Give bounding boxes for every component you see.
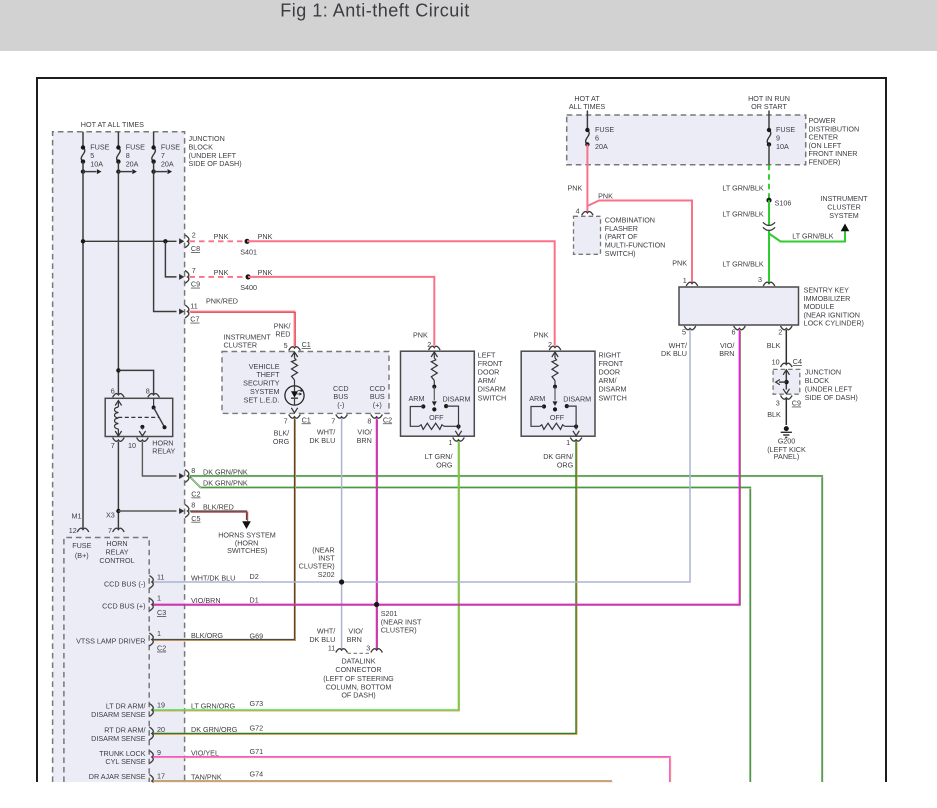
svg-text:DISARM: DISARM <box>443 395 471 404</box>
pin 2 (sentry module) <box>767 326 792 350</box>
module pin 9 (TRUNK LOCK CYL SENSE) <box>99 747 263 766</box>
diagram border frame <box>37 78 886 782</box>
svg-text:OF DASH): OF DASH) <box>341 691 375 700</box>
svg-text:(+): (+) <box>373 400 382 409</box>
horn relay K1 <box>105 387 175 456</box>
svg-text:6: 6 <box>111 387 115 396</box>
svg-text:WHT/DK BLU: WHT/DK BLU <box>191 573 235 582</box>
svg-text:C2: C2 <box>157 644 166 653</box>
svg-text:SWITCHES): SWITCHES) <box>227 546 267 555</box>
bottom crop mask (diagram cut off) <box>0 783 937 808</box>
wire: X3 junction to connector C5 <box>118 510 176 512</box>
svg-text:PNK: PNK <box>214 268 229 277</box>
module pin 1 (VTSS LAMP DRIVER) <box>76 629 263 653</box>
splice S202 <box>339 579 344 584</box>
svg-text:VIO/BRN: VIO/BRN <box>191 596 221 605</box>
wire PNK (dashed) C8 to splice S401 <box>190 240 248 242</box>
wire PNK (dashed) C9 to splice S400 <box>190 276 249 278</box>
svg-text:CCD BUS (-): CCD BUS (-) <box>104 580 146 589</box>
right front door arm/disarm switch <box>521 331 627 448</box>
svg-text:11: 11 <box>190 302 197 311</box>
wire DK GRN/PNK (upper): C2 to lower right <box>190 476 823 782</box>
svg-text:LT DR ARM/: LT DR ARM/ <box>106 701 146 710</box>
svg-text:DK BLU: DK BLU <box>309 436 335 445</box>
svg-text:3: 3 <box>776 399 780 408</box>
svg-text:17: 17 <box>157 772 165 781</box>
svg-text:ORG: ORG <box>436 460 453 469</box>
svg-text:PNK: PNK <box>534 331 549 340</box>
svg-text:(B+): (B+) <box>75 551 89 560</box>
wire PNK: fuse 6 to combination flasher pin 4 <box>586 144 588 211</box>
svg-text:1: 1 <box>157 593 161 602</box>
wire DK GRN/PNK (lower): C2 to lower right <box>190 477 750 782</box>
svg-text:LT GRN/ORG: LT GRN/ORG <box>191 701 235 710</box>
svg-text:7: 7 <box>111 441 115 450</box>
svg-text:BRN: BRN <box>719 349 734 358</box>
svg-text:2: 2 <box>548 340 552 349</box>
svg-text:PANEL): PANEL) <box>774 452 799 461</box>
svg-text:D1: D1 <box>250 595 259 604</box>
module pin 1 (CCD BUS (+)) <box>102 593 259 617</box>
svg-text:CONTROL: CONTROL <box>99 556 134 565</box>
svg-text:LOCK CYLINDER): LOCK CYLINDER) <box>804 319 864 328</box>
svg-text:X3: X3 <box>106 511 115 520</box>
svg-text:1: 1 <box>449 438 453 447</box>
svg-text:DK BLU: DK BLU <box>661 349 687 358</box>
svg-text:11: 11 <box>157 573 164 582</box>
svg-text:G72: G72 <box>250 723 264 732</box>
svg-text:VIO/: VIO/ <box>357 428 371 437</box>
svg-text:C1: C1 <box>302 340 311 349</box>
svg-text:DISARM: DISARM <box>563 395 591 404</box>
connector C7 pin 11 (output PNK/RED) <box>179 302 199 324</box>
svg-text:ARM: ARM <box>529 394 545 403</box>
svg-text:M1: M1 <box>72 512 82 521</box>
svg-text:PNK: PNK <box>258 232 273 241</box>
svg-text:DISARM SENSE: DISARM SENSE <box>91 710 146 719</box>
wire LT GRN/BLK: branch to instrument cluster system <box>769 231 845 242</box>
wire LT GRN/BLK (dashed): fuse 9 to splice S106 <box>768 144 770 164</box>
wire: branch to relay pin 8 <box>118 370 153 395</box>
wire LT GRN/BLK: S106 to in-line connector <box>768 200 770 226</box>
svg-text:8: 8 <box>146 387 150 396</box>
svg-text:7: 7 <box>284 416 288 425</box>
pin 1 (sentry module) <box>683 276 698 286</box>
svg-text:G74: G74 <box>250 769 264 778</box>
svg-text:9: 9 <box>157 748 161 757</box>
svg-text:D2: D2 <box>250 572 259 581</box>
svg-text:3: 3 <box>758 275 762 284</box>
fuse F7 20A (junction block) <box>151 132 180 174</box>
svg-text:10: 10 <box>772 358 780 367</box>
svg-text:RED: RED <box>275 330 290 339</box>
svg-text:HOT AT ALL TIMES: HOT AT ALL TIMES <box>81 120 144 129</box>
svg-text:DK GRN/PNK: DK GRN/PNK <box>203 478 248 487</box>
wire WHT/DK BLU: sentry pin 5 to S202 <box>153 330 690 582</box>
junction block J1 (under left side of dash) <box>53 120 242 782</box>
fuse F5 10A (junction block) <box>81 132 110 174</box>
svg-text:PNK/RED: PNK/RED <box>206 297 238 306</box>
svg-text:DISARM SENSE: DISARM SENSE <box>91 734 146 743</box>
svg-text:C7: C7 <box>190 315 199 324</box>
wire BLK: sentry pin 2 to junction block C4 <box>785 330 787 364</box>
vehicle theft security system set LED (with resistor) <box>243 352 304 413</box>
pin 5 C1 (instrument cluster) <box>284 340 311 351</box>
svg-text:C4: C4 <box>793 357 802 366</box>
wire X3: relay pin 7 to module pin 7 <box>117 442 119 529</box>
combination flasher (dashed box) <box>574 206 666 258</box>
wire PNK: branch to sentry key module pin 1 <box>587 201 692 284</box>
svg-text:TAN/PNK: TAN/PNK <box>191 772 222 781</box>
svg-text:C3: C3 <box>157 608 166 617</box>
title banner <box>0 0 937 51</box>
svg-text:S400: S400 <box>240 283 257 292</box>
svg-text:8: 8 <box>367 416 371 425</box>
svg-text:PNK: PNK <box>413 331 428 340</box>
svg-text:G69: G69 <box>250 632 264 641</box>
svg-text:RELAY: RELAY <box>152 447 175 456</box>
svg-text:BLK: BLK <box>767 410 781 419</box>
connector C8 pin 2 (output to S401) <box>81 231 200 254</box>
wire BLK: junction block C9 to ground G200 <box>785 399 787 425</box>
svg-text:1: 1 <box>683 276 687 285</box>
svg-text:SWITCH: SWITCH <box>599 393 627 402</box>
svg-text:PNK: PNK <box>598 192 613 201</box>
splice S106 <box>766 198 771 203</box>
svg-text:S106: S106 <box>775 198 792 207</box>
svg-text:3: 3 <box>366 643 370 652</box>
wire: relay pin 10 to connector C2 <box>142 442 176 476</box>
in-line connector (LT GRN/BLK) <box>763 222 775 225</box>
svg-text:CCD BUS (+): CCD BUS (+) <box>102 601 145 610</box>
wire PNK/RED: C7 to instrument cluster pin 5 <box>190 312 295 347</box>
fuse F6 20A (PDC) <box>585 111 614 152</box>
svg-text:1: 1 <box>157 629 161 638</box>
svg-text:1: 1 <box>566 438 570 447</box>
net label CCD BUS (-) <box>333 384 349 409</box>
svg-text:C2: C2 <box>383 415 392 424</box>
wire PNK: S400 to left door switch pin 2 <box>248 277 434 346</box>
svg-text:C8: C8 <box>191 244 200 253</box>
svg-text:OFF: OFF <box>429 413 444 422</box>
svg-text:DR AJAR SENSE: DR AJAR SENSE <box>89 772 146 781</box>
wire LT GRN/ORG: left door pin 1 to module pin 19 <box>153 441 459 710</box>
svg-text:8: 8 <box>191 466 195 475</box>
fuse F9 10A (PDC) <box>767 111 796 152</box>
svg-text:CONNECTOR: CONNECTOR <box>335 665 381 674</box>
svg-text:WHT/: WHT/ <box>317 428 335 437</box>
junction: fuse 8 branch to relay pin 8 <box>116 368 120 372</box>
svg-text:7: 7 <box>192 266 196 275</box>
pin 7 (module, from X3) <box>108 526 124 535</box>
connector C5 pin 8 (BLK/RED output) <box>179 501 200 523</box>
power distribution center (dashed box) <box>567 94 860 167</box>
wire BLK/ORG: cluster pin 7 to module VTSS LAMP DRIVER <box>153 418 295 639</box>
pin 8 C2 (CCD BUS +) <box>367 414 392 425</box>
svg-text:LT GRN/BLK: LT GRN/BLK <box>792 232 833 241</box>
arrow to horns system <box>242 521 251 529</box>
svg-text:19: 19 <box>157 701 165 710</box>
svg-text:VIO/YEL: VIO/YEL <box>191 748 219 757</box>
svg-text:PNK: PNK <box>568 183 583 192</box>
svg-text:SIDE OF DASH): SIDE OF DASH) <box>189 159 242 168</box>
svg-text:LT GRN/BLK: LT GRN/BLK <box>722 210 763 219</box>
net label CCD BUS (+) <box>370 384 386 409</box>
svg-text:SYSTEM: SYSTEM <box>829 211 859 220</box>
svg-text:CYL SENSE: CYL SENSE <box>105 757 145 766</box>
svg-text:ORG: ORG <box>273 437 290 446</box>
svg-text:6: 6 <box>732 328 736 337</box>
svg-text:20A: 20A <box>161 160 174 169</box>
svg-text:8: 8 <box>191 501 195 510</box>
svg-text:2: 2 <box>427 340 431 349</box>
svg-text:C9: C9 <box>191 280 200 289</box>
svg-text:CLUSTER: CLUSTER <box>224 341 258 350</box>
wire VIO/YEL: module pin 9 to trunk lock cyl (cut off) <box>153 757 670 782</box>
svg-text:C5: C5 <box>191 514 200 523</box>
svg-text:5: 5 <box>682 328 686 337</box>
module: horn relay control / fuse B+ (dashed box) <box>64 538 149 783</box>
wire WHT/DK BLU: cluster CCD- to datalink pin 11 <box>341 418 343 649</box>
svg-text:G71: G71 <box>250 747 264 756</box>
svg-text:SET L.E.D.: SET L.E.D. <box>244 395 280 404</box>
svg-text:LT GRN/BLK: LT GRN/BLK <box>722 259 763 268</box>
svg-text:ORG: ORG <box>557 460 574 469</box>
arrow to instrument cluster system <box>841 224 850 232</box>
wire PNK: S401 to right door switch pin 2 <box>247 241 555 345</box>
connector C2 pin 8 (DK GRN/PNK outputs) <box>179 466 200 499</box>
svg-text:12: 12 <box>69 526 77 535</box>
pin 3 (sentry module) <box>758 275 775 286</box>
svg-text:VTSS LAMP DRIVER: VTSS LAMP DRIVER <box>76 636 145 645</box>
svg-text:PNK: PNK <box>214 232 229 241</box>
wire BLK/RED: C5 to horns system <box>190 511 247 520</box>
pin 7 C1 (instrument cluster, LED low side) <box>284 414 311 425</box>
module pin 17 (DR AJAR SENSE) <box>89 769 263 787</box>
module pin 19 (LT DR ARM/DISARM SENSE) <box>91 699 263 719</box>
svg-text:2: 2 <box>192 231 196 240</box>
junction on X3 wire <box>116 509 120 513</box>
svg-text:DK GRN/PNK: DK GRN/PNK <box>203 468 248 477</box>
svg-text:C9: C9 <box>792 399 801 408</box>
svg-text:OFF: OFF <box>550 413 565 422</box>
svg-text:7: 7 <box>108 526 112 535</box>
left front door arm/disarm switch <box>401 331 507 448</box>
svg-text:FENDER): FENDER) <box>809 158 841 167</box>
svg-text:BRN: BRN <box>347 635 362 644</box>
svg-text:ALL TIMES: ALL TIMES <box>569 102 606 111</box>
svg-text:CLUSTER): CLUSTER) <box>381 626 417 635</box>
svg-text:OR START: OR START <box>751 102 787 111</box>
ground G200 <box>767 426 806 461</box>
svg-text:PNK: PNK <box>672 259 687 268</box>
module pin 11 (CCD BUS (-)) <box>104 572 259 589</box>
wire DK GRN/ORG: right door pin 1 to module pin 20 <box>153 441 576 733</box>
junction block J2 (right, under left side of dash) <box>767 357 858 419</box>
pin 6 (sentry module) <box>719 326 745 358</box>
svg-text:DK GRN/ORG: DK GRN/ORG <box>191 725 238 734</box>
instrument cluster (dashed box) <box>222 333 389 414</box>
svg-text:SWITCH): SWITCH) <box>605 249 636 258</box>
svg-text:LT GRN/BLK: LT GRN/BLK <box>722 183 763 192</box>
svg-text:C1: C1 <box>302 415 311 424</box>
splice S401 <box>245 239 250 244</box>
wire: fuse 7 to connector C7 <box>154 162 177 312</box>
svg-text:BLK: BLK <box>767 341 781 350</box>
wire TAN/PNK: module pin 17 (cut off) <box>153 780 612 782</box>
wire: fuse 8 to horn relay <box>117 162 119 395</box>
splice S201 <box>374 602 379 607</box>
datalink connector <box>309 627 394 700</box>
wire LT GRN/BLK: connector to sentry key module pin 3 <box>768 231 770 284</box>
svg-text:SIDE OF DASH): SIDE OF DASH) <box>805 393 858 402</box>
svg-text:5: 5 <box>284 341 288 350</box>
svg-text:C2: C2 <box>191 490 200 499</box>
module pin 20 (RT DR ARM/DISARM SENSE) <box>91 723 263 743</box>
connector C9 pin 7 (output to S400) <box>165 241 200 288</box>
pin 5 (sentry module) <box>661 326 696 358</box>
svg-text:FUSE: FUSE <box>72 541 91 550</box>
pin 12 (module, from M1) <box>69 526 89 535</box>
fuse F8 20A (junction block) <box>116 132 145 174</box>
svg-text:2: 2 <box>778 328 782 337</box>
svg-text:10A: 10A <box>90 160 103 169</box>
svg-text:SWITCH: SWITCH <box>478 393 506 402</box>
svg-text:10: 10 <box>128 441 136 450</box>
sentry key immobilizer module U1 <box>679 286 864 328</box>
svg-text:(-): (-) <box>337 400 344 409</box>
svg-text:11: 11 <box>328 643 335 652</box>
svg-text:ARM: ARM <box>409 394 425 403</box>
svg-text:7: 7 <box>331 416 335 425</box>
svg-text:BRN: BRN <box>357 436 372 445</box>
svg-text:20: 20 <box>157 725 165 734</box>
svg-text:PNK: PNK <box>258 268 273 277</box>
svg-text:S202: S202 <box>318 570 335 579</box>
svg-text:BLK/RED: BLK/RED <box>203 502 234 511</box>
svg-text:Fig 1: Anti-theft Circuit: Fig 1: Anti-theft Circuit <box>280 1 470 21</box>
svg-text:S401: S401 <box>240 248 257 257</box>
svg-text:20A: 20A <box>595 142 608 151</box>
svg-text:10A: 10A <box>776 142 789 151</box>
svg-text:BLK/ORG: BLK/ORG <box>191 631 223 640</box>
svg-text:G73: G73 <box>250 699 264 708</box>
svg-text:4: 4 <box>576 206 580 215</box>
wire M1: fuse 5 to module pin 12 <box>82 162 84 529</box>
svg-text:20A: 20A <box>126 160 139 169</box>
pin 7 (CCD BUS -) <box>331 414 347 425</box>
wire VIO/BRN: sentry pin 6 to S201 <box>153 330 740 605</box>
splice S400 <box>246 274 251 279</box>
wire VIO/BRN: cluster CCD+ to datalink pin 3 <box>376 418 378 649</box>
